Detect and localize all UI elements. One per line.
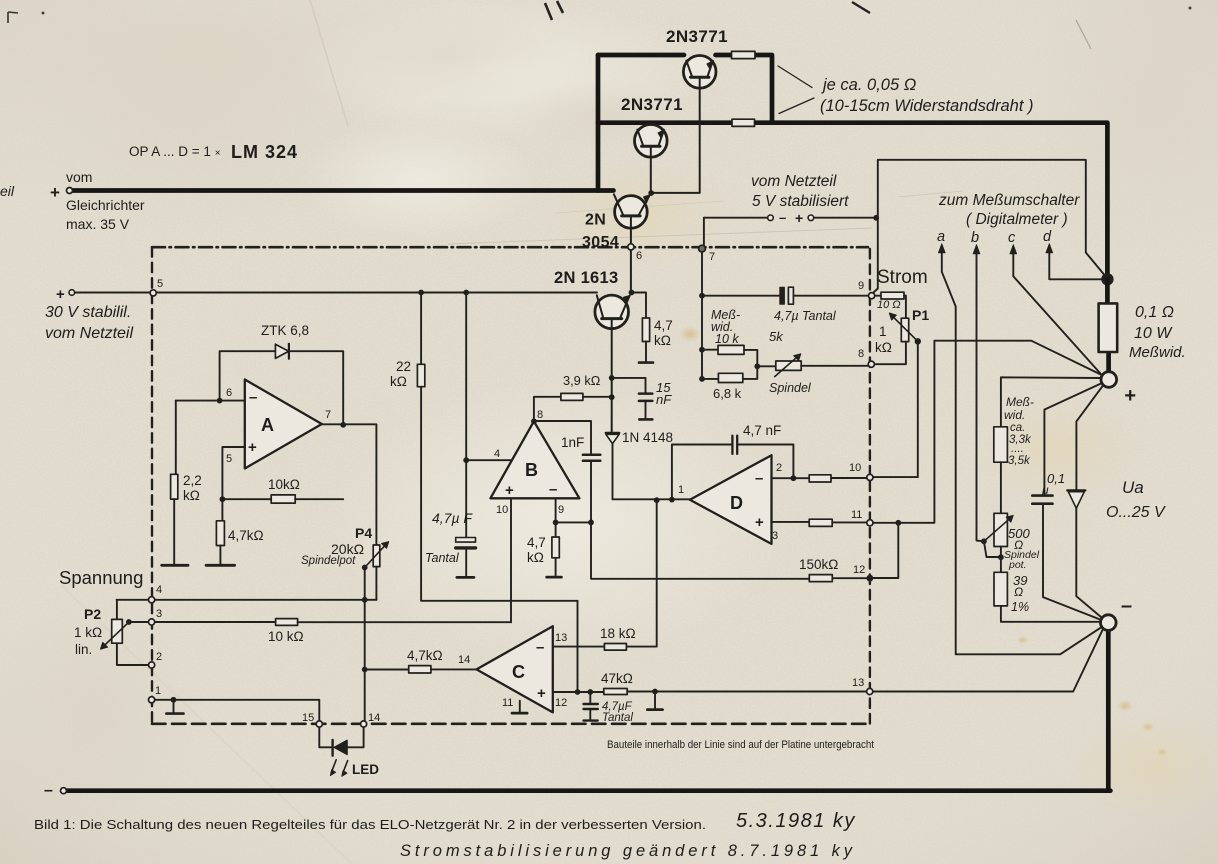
svg-text:–: – bbox=[249, 389, 257, 406]
terminal circle 5V plus bbox=[808, 215, 814, 221]
transistor Q2 2N3771 lower bbox=[635, 125, 668, 194]
svg-text:7: 7 bbox=[325, 409, 331, 421]
svg-text:12: 12 bbox=[555, 697, 567, 709]
node: big dot shunt top bbox=[1101, 273, 1113, 285]
svg-text:wid.: wid. bbox=[1004, 408, 1025, 422]
node: dot 10k left bbox=[699, 347, 705, 353]
op-amp U1D triangle bbox=[690, 455, 772, 544]
svg-text:2: 2 bbox=[776, 462, 782, 474]
node: output + node circle bbox=[1101, 372, 1117, 388]
wire: thick into shunt bbox=[1107, 279, 1108, 373]
node: dot 500 wiper left bbox=[981, 538, 987, 544]
capacitor 4,7uF Tantal (A side) bbox=[456, 538, 476, 543]
svg-text:max. 35 V: max. 35 V bbox=[66, 216, 130, 232]
svg-text:D: D bbox=[730, 493, 743, 513]
wire: B output up to 3,9k bbox=[534, 397, 561, 422]
svg-text:kΩ: kΩ bbox=[527, 550, 544, 565]
wire: meter box path pin9 up-over-down bbox=[873, 160, 1106, 293]
terminal + 30V bbox=[69, 290, 75, 296]
op-amp U1C triangle bbox=[477, 626, 553, 712]
node: dot 4,7nF to minus wire bbox=[791, 475, 797, 481]
svg-text:Spannung: Spannung bbox=[59, 567, 143, 588]
node: dot 500/39 junction bbox=[998, 554, 1004, 560]
svg-text:–: – bbox=[755, 470, 763, 487]
svg-text:Spindelpot: Spindelpot bbox=[301, 555, 356, 567]
svg-text:4,7: 4,7 bbox=[654, 318, 673, 333]
svg-text:nF: nF bbox=[656, 392, 672, 407]
svg-text:Tantal: Tantal bbox=[602, 712, 633, 724]
LED emission arrows bbox=[331, 760, 347, 774]
C ground pin 11 bbox=[519, 701, 521, 713]
arrowhead d bbox=[1046, 244, 1053, 253]
svg-text:+: + bbox=[795, 210, 803, 226]
svg-text:4,7µ Tantal: 4,7µ Tantal bbox=[774, 309, 837, 323]
svg-text:13: 13 bbox=[852, 677, 864, 689]
diode 1N4148 bbox=[606, 433, 619, 499]
svg-text:a: a bbox=[937, 229, 945, 245]
svg-text:47kΩ: 47kΩ bbox=[601, 671, 633, 686]
500R wiper arrow bbox=[984, 519, 1010, 542]
wire: B pin4 into triangle bbox=[466, 459, 512, 461]
pin 14 bbox=[361, 721, 367, 727]
resistor 3,9k bbox=[561, 393, 583, 400]
wire: D minus input to pin10 bbox=[772, 477, 810, 479]
node: dot pin7 row tee bbox=[699, 293, 705, 299]
P1 wiper arrow bbox=[893, 317, 918, 342]
pin 1 bbox=[149, 697, 155, 703]
svg-text:10 kΩ: 10 kΩ bbox=[268, 629, 304, 644]
resistor 150k bbox=[809, 575, 832, 582]
svg-text:2N3771: 2N3771 bbox=[621, 95, 683, 114]
wire: C-output vertical x=364.6 wiper to pin14 bbox=[364, 568, 366, 723]
svg-text:3,5k: 3,5k bbox=[1008, 455, 1031, 467]
resistor 3,3k bbox=[994, 427, 1008, 462]
svg-text:Ω: Ω bbox=[1014, 585, 1023, 599]
resistor 0,05R wire resistor row1 bbox=[732, 51, 756, 58]
svg-text:P1: P1 bbox=[912, 307, 929, 323]
border: top dash-dot bbox=[152, 246, 868, 249]
svg-text:7: 7 bbox=[709, 251, 715, 263]
wire: Messwid chain from node+ bbox=[1001, 377, 1102, 427]
svg-text:4,7kΩ: 4,7kΩ bbox=[407, 648, 443, 663]
terminal circle 5V minus bbox=[768, 215, 774, 221]
wire: segment from 1613 collector dot to 4,7k corner bbox=[632, 293, 647, 319]
svg-text:150kΩ: 150kΩ bbox=[799, 557, 838, 572]
svg-text:LED: LED bbox=[352, 762, 379, 777]
border: left dashed bbox=[151, 247, 153, 724]
svg-text:zum Meßumschalter: zum Meßumschalter bbox=[938, 192, 1080, 209]
svg-text:0,1 Ω: 0,1 Ω bbox=[1135, 304, 1174, 321]
svg-text:9: 9 bbox=[558, 504, 564, 516]
svg-text:2N3771: 2N3771 bbox=[666, 27, 728, 46]
potentiometer P4 20k body bbox=[373, 545, 380, 567]
wire: 15nF tap bbox=[612, 378, 646, 392]
svg-text:10kΩ: 10kΩ bbox=[268, 477, 300, 492]
wire: 3771 bases tie line and riser to Q1 base bbox=[651, 192, 700, 194]
node: dot D output 4,7nF tee bbox=[669, 497, 675, 503]
node: base junction dot bbox=[648, 190, 654, 196]
pin 3 bbox=[149, 619, 155, 625]
wire: thick from node- down and bottom rail bbox=[64, 630, 1110, 791]
svg-text:–: – bbox=[536, 639, 544, 656]
svg-text:1N 4148: 1N 4148 bbox=[622, 430, 673, 445]
svg-text:4: 4 bbox=[494, 448, 500, 460]
wire: B supply vertical x=466 bbox=[465, 293, 467, 538]
svg-text:Stromstabilisierung geändert: Stromstabilisierung geändert 8.7.1981 ky bbox=[400, 842, 854, 860]
arrowhead b bbox=[973, 245, 980, 254]
node: dot B apex bbox=[531, 418, 537, 424]
svg-text:pot.: pot. bbox=[1008, 559, 1027, 571]
wire: 5V row bbox=[704, 217, 876, 219]
node: junction dot 3054 base on 30V rail bbox=[629, 290, 635, 296]
svg-text:vom: vom bbox=[66, 169, 92, 185]
node: dot 22k top on rail bbox=[418, 290, 424, 296]
capacitor 4,7nF feedback loop bbox=[672, 445, 794, 500]
arrowhead a bbox=[938, 244, 945, 253]
svg-text:3: 3 bbox=[156, 608, 162, 620]
svg-text:( Digitalmeter ): ( Digitalmeter ) bbox=[966, 211, 1068, 228]
svg-text:–: – bbox=[44, 782, 53, 799]
svg-text:5k: 5k bbox=[769, 329, 784, 344]
terminal - bottom bbox=[61, 788, 67, 794]
svg-text:OP A ... D = 1 ×: OP A ... D = 1 × bbox=[129, 144, 221, 159]
wire: P1 wiper down to pin10 row bbox=[873, 341, 918, 477]
svg-text:1: 1 bbox=[155, 685, 161, 697]
pin 8 bbox=[868, 361, 874, 367]
resistor 10k pin3 bbox=[276, 619, 298, 626]
svg-text:kΩ: kΩ bbox=[875, 340, 892, 355]
svg-text:5: 5 bbox=[157, 278, 163, 290]
svg-text:....: .... bbox=[1011, 443, 1024, 455]
node: dot at 4,7k C-output tee bbox=[362, 667, 368, 673]
terminal + rectifier bbox=[67, 188, 73, 194]
svg-text:P2: P2 bbox=[84, 606, 101, 622]
svg-text:10: 10 bbox=[496, 504, 508, 516]
svg-text:1 kΩ: 1 kΩ bbox=[74, 625, 102, 640]
capacitor 1nF bbox=[583, 455, 600, 461]
node: dot P2 wiper to pin3 bbox=[126, 619, 132, 625]
wire: B plus input vertical pin10 bbox=[510, 498, 512, 622]
node: dot parallel join bbox=[754, 363, 760, 369]
pin 2 bbox=[149, 662, 155, 668]
pin 10 bbox=[867, 474, 873, 480]
capacitor 15nF bbox=[639, 394, 652, 401]
resistor 6,8k bbox=[702, 378, 718, 380]
node: dot at pin4 wire crossing bbox=[362, 597, 368, 603]
node: dot C plus x577 bbox=[575, 689, 581, 695]
svg-text:+: + bbox=[755, 514, 764, 531]
svg-text:–: – bbox=[779, 210, 786, 225]
LED loop below border bbox=[319, 724, 331, 747]
wire: input 6 net horizontal bbox=[176, 400, 245, 402]
svg-text:C: C bbox=[512, 662, 525, 682]
svg-text:1nF: 1nF bbox=[561, 435, 584, 450]
resistor 0,1R 10W shunt bbox=[1099, 303, 1118, 352]
pin 11 bbox=[867, 520, 873, 526]
svg-text:4,7: 4,7 bbox=[527, 535, 546, 550]
svg-text:5.3.1981 ky: 5.3.1981 ky bbox=[736, 810, 856, 832]
svg-text:1: 1 bbox=[678, 484, 684, 496]
wire: B minus input vertical bbox=[555, 498, 557, 537]
node: dot P4 wiper bbox=[362, 565, 368, 571]
resistor 39R 1% bbox=[994, 572, 1007, 606]
svg-text:8: 8 bbox=[537, 409, 543, 421]
resistor 0,05R wire resistor row2 bbox=[732, 119, 755, 126]
svg-text:4: 4 bbox=[156, 584, 162, 596]
svg-text:+: + bbox=[248, 439, 257, 456]
wire: ZTK feedback loop bbox=[220, 351, 344, 425]
node: dot 15nF tap bbox=[609, 375, 615, 381]
svg-text:4,7kΩ: 4,7kΩ bbox=[228, 528, 264, 543]
svg-text:4,7 nF: 4,7 nF bbox=[743, 423, 781, 438]
LED diode bbox=[331, 740, 333, 756]
svg-text:11: 11 bbox=[851, 509, 862, 521]
svg-text:+: + bbox=[1124, 385, 1136, 407]
wire: input 5 net bbox=[222, 447, 271, 499]
wire: c arrow line bbox=[1013, 252, 1102, 376]
border: right dashed bbox=[869, 249, 871, 724]
svg-text:18 kΩ: 18 kΩ bbox=[600, 626, 636, 641]
svg-text:d: d bbox=[1043, 229, 1052, 245]
svg-text:eil: eil bbox=[0, 183, 15, 199]
wire: pin7 vertical bbox=[701, 249, 703, 379]
capacitor 0,1u output bbox=[1044, 383, 1102, 494]
svg-text:2N 1613: 2N 1613 bbox=[554, 269, 618, 287]
svg-text:ca.: ca. bbox=[1010, 422, 1025, 434]
svg-text:B: B bbox=[525, 460, 538, 480]
svg-text:11: 11 bbox=[502, 697, 513, 709]
resistor 1k P1 body bbox=[904, 296, 906, 319]
resistor 4,7k below B bbox=[552, 537, 559, 558]
svg-text:1%: 1% bbox=[1011, 600, 1029, 614]
svg-text:14: 14 bbox=[368, 712, 380, 724]
wire: C plus input row with 47k bbox=[553, 691, 604, 693]
node: dot B minus junction bbox=[553, 520, 559, 526]
wire: A output and vertical to P4 bbox=[322, 424, 377, 545]
resistor 10k feedback A bbox=[271, 495, 295, 503]
svg-text:15: 15 bbox=[302, 712, 314, 724]
wire: D output run bbox=[613, 498, 690, 500]
svg-text:6,8 k: 6,8 k bbox=[713, 386, 742, 401]
pin 9 bbox=[869, 293, 875, 299]
wire: C minus input with 18k bbox=[553, 646, 605, 648]
arrowhead c bbox=[1010, 245, 1017, 254]
ground bar pin1 bbox=[166, 712, 183, 715]
svg-text:1: 1 bbox=[879, 324, 887, 339]
wire: D plus input to pin11 bbox=[772, 521, 810, 523]
capacitor 4,7uF Tantal (C side) bbox=[589, 692, 591, 703]
svg-text:–: – bbox=[549, 481, 557, 498]
wire: thick +35V rail from rectifier terminal bbox=[70, 188, 614, 193]
transistor Q1 2N3771 top bbox=[683, 56, 716, 193]
resistor 10k measure bbox=[702, 349, 718, 351]
svg-text:Bauteile innerhalb der Linie s: Bauteile innerhalb der Linie sind auf de… bbox=[607, 739, 875, 751]
pin 6 bbox=[628, 244, 634, 250]
ground bar 4,7k bbox=[206, 564, 235, 567]
svg-text:Bild 1: Die Schaltung des neue: Bild 1: Die Schaltung des neuen Regeltei… bbox=[34, 817, 706, 832]
svg-text:c: c bbox=[1008, 230, 1016, 246]
svg-text:8: 8 bbox=[858, 348, 864, 360]
node: dot input5/10k bbox=[220, 496, 226, 502]
potentiometer P2 1k body+stem bbox=[116, 600, 118, 620]
svg-text:+: + bbox=[537, 685, 546, 702]
node: dot P1 wiper pivot bbox=[915, 338, 921, 344]
svg-text:b: b bbox=[971, 230, 979, 246]
pin 5 bbox=[150, 290, 156, 296]
ground bar 4,7k B bbox=[547, 576, 562, 579]
transistor Q3 2N3054 bbox=[614, 194, 650, 292]
wire: 30V rail y=292.5 bbox=[72, 292, 597, 294]
pointer lines to annotation bbox=[778, 66, 814, 114]
svg-text:lin.: lin. bbox=[75, 642, 92, 657]
svg-text:μ: μ bbox=[1041, 483, 1049, 497]
wire: y=601 corner down to C plus bbox=[577, 601, 579, 692]
svg-text:kΩ: kΩ bbox=[654, 333, 671, 348]
svg-text:10 W: 10 W bbox=[1134, 325, 1173, 342]
border: bottom dashed bbox=[152, 722, 870, 725]
wire: pin4 horizontal bbox=[117, 599, 377, 601]
node: dot C plus 4,7uF tap bbox=[587, 689, 593, 695]
pin 13 bbox=[867, 688, 873, 694]
P2 wiper arrow bbox=[105, 622, 129, 645]
svg-text:10 Ω: 10 Ω bbox=[877, 299, 901, 311]
svg-text:14: 14 bbox=[458, 654, 470, 666]
op-amp U1B triangle bbox=[490, 421, 579, 498]
node: dot 5V into box edge bbox=[873, 215, 879, 221]
op-amp U1A triangle bbox=[245, 380, 322, 469]
svg-text:3: 3 bbox=[772, 530, 778, 542]
svg-text:3,9 kΩ: 3,9 kΩ bbox=[563, 373, 601, 388]
svg-text:vom Netzteil: vom Netzteil bbox=[751, 173, 837, 190]
svg-text:10: 10 bbox=[849, 462, 861, 474]
ground bar tantal bbox=[457, 576, 474, 579]
pin 7 bbox=[699, 245, 706, 252]
diode ZTK 6,8 bbox=[275, 344, 289, 359]
wire+ground bar below 4,7k bbox=[645, 342, 647, 363]
potentiometer 500R body bbox=[994, 513, 1007, 546]
transistor Q4 2N1613 bbox=[595, 295, 630, 433]
svg-text:+: + bbox=[56, 286, 65, 303]
wire: C output with 4,7k bbox=[365, 669, 409, 671]
svg-text:4,7µ F: 4,7µ F bbox=[432, 510, 473, 526]
svg-text:9: 9 bbox=[858, 280, 864, 292]
svg-text:Spindel: Spindel bbox=[769, 381, 812, 395]
resistor 4,7k at 1613 bbox=[642, 318, 649, 342]
svg-text:2N: 2N bbox=[585, 212, 606, 229]
svg-text:vom Netzteil: vom Netzteil bbox=[45, 325, 133, 342]
node: dot at B pin4 tap bbox=[463, 457, 469, 463]
svg-text:6: 6 bbox=[226, 387, 232, 399]
wire: pin3 net with 10k bbox=[129, 621, 276, 623]
svg-text:3054: 3054 bbox=[582, 234, 619, 251]
wire: B output right to 1nF bbox=[534, 421, 591, 454]
node: dot 1nF bottom junction bbox=[588, 520, 594, 526]
svg-text:10 k: 10 k bbox=[715, 332, 739, 346]
node: dot supply top bbox=[463, 290, 469, 296]
diode output protection bbox=[1076, 385, 1103, 489]
svg-text:5 V stabilisiert: 5 V stabilisiert bbox=[752, 193, 849, 210]
node: output - node circle bbox=[1101, 615, 1117, 631]
resistor 2,2k bbox=[175, 401, 177, 475]
svg-text:Meß-: Meß- bbox=[1006, 395, 1034, 409]
wire: pin1 net and ground bbox=[151, 700, 319, 724]
svg-text:6: 6 bbox=[636, 250, 642, 262]
ground bar 47k bbox=[647, 708, 662, 711]
svg-text:Ua: Ua bbox=[1122, 478, 1144, 497]
svg-text:–: – bbox=[1121, 595, 1132, 617]
svg-text:(10-15cm Widerstandsdraht ): (10-15cm Widerstandsdraht ) bbox=[820, 97, 1034, 115]
node: dot pin1 ground tee bbox=[171, 697, 177, 703]
capacitor 4,7u Tantal polarized bbox=[780, 287, 785, 304]
wire: link to 1nF vertical bbox=[556, 521, 591, 523]
wire: wiper link to junction bbox=[984, 541, 1001, 557]
svg-text:kΩ: kΩ bbox=[183, 488, 200, 503]
svg-text:2,2: 2,2 bbox=[183, 473, 202, 488]
svg-text:A: A bbox=[261, 415, 274, 435]
svg-text:5: 5 bbox=[226, 453, 232, 465]
svg-text:Gleichrichter: Gleichrichter bbox=[66, 197, 145, 213]
svg-text:kΩ: kΩ bbox=[390, 374, 407, 389]
svg-text:30 V stabilil.: 30 V stabilil. bbox=[45, 304, 131, 321]
node: dot 3,9k junction at 1613 base bbox=[609, 394, 615, 400]
resistor 4,7k to ground bbox=[221, 499, 223, 521]
wire: thick top loop row 1 with corner down to row 2 bbox=[598, 55, 772, 123]
wire: pin11 out to node+ via x934 bbox=[873, 341, 1103, 523]
svg-text:13: 13 bbox=[555, 632, 567, 644]
svg-text:je ca. 0,05 Ω: je ca. 0,05 Ω bbox=[821, 76, 916, 94]
node: dot D output 18k tee bbox=[654, 497, 660, 503]
pin 12 filled bbox=[867, 575, 874, 582]
resistor 22k on vertical from rail bbox=[420, 293, 422, 365]
wire: thick vertical riser x=598 bbox=[596, 55, 601, 191]
wire: pin13 out to node- bbox=[873, 628, 1104, 692]
svg-text:ZTK 6,8: ZTK 6,8 bbox=[261, 323, 309, 338]
node: dot 6,8k left end bbox=[699, 376, 705, 382]
resistor 10R bbox=[875, 295, 881, 297]
P4 wiper arrow bbox=[365, 545, 386, 568]
svg-text:O...25 V: O...25 V bbox=[1106, 504, 1166, 521]
wire: jumper pin11-pin12 bbox=[873, 523, 898, 578]
svg-text:12: 12 bbox=[853, 564, 865, 576]
svg-text:22: 22 bbox=[396, 359, 411, 374]
svg-text:2: 2 bbox=[156, 651, 162, 663]
svg-text:P4: P4 bbox=[355, 525, 372, 541]
svg-text:+: + bbox=[50, 183, 60, 202]
wire: pin9 row bbox=[702, 295, 869, 297]
wire: b arrow line bbox=[977, 252, 984, 541]
pin 15 bbox=[316, 721, 322, 727]
node: dot A output feedback bbox=[340, 422, 346, 428]
wire: d arrow line bbox=[1049, 251, 1102, 279]
node: dot input6 bbox=[217, 398, 223, 404]
wire: a arrow line bbox=[942, 251, 1105, 654]
node: dot pin11 jumper bbox=[895, 520, 901, 526]
svg-text:LM 324: LM 324 bbox=[231, 142, 298, 162]
ground bar 15nF bbox=[639, 418, 652, 421]
node: dot 47k right + ground bbox=[652, 689, 658, 695]
trimmer 5k Spindel bbox=[757, 365, 776, 367]
svg-text:+: + bbox=[505, 482, 514, 499]
wire: thick row 2 across to right edge corner bbox=[598, 123, 1107, 277]
svg-text:Meßwid.: Meßwid. bbox=[1129, 344, 1186, 361]
ground bar 2,2k bbox=[162, 564, 188, 567]
pin 4 bbox=[149, 597, 155, 603]
svg-text:0,1: 0,1 bbox=[1047, 471, 1065, 486]
svg-text:Strom: Strom bbox=[877, 267, 928, 288]
svg-text:Tantal: Tantal bbox=[425, 551, 460, 565]
